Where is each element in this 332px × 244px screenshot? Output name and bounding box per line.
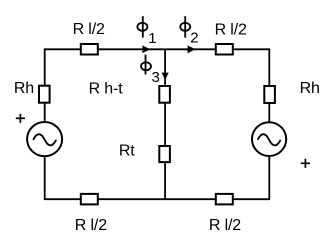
svg-text:2: 2 (190, 29, 198, 46)
svg-text:R l/2: R l/2 (75, 217, 107, 234)
svg-text:R l/2: R l/2 (209, 217, 241, 234)
svg-text:R l/2: R l/2 (73, 21, 105, 38)
svg-text:R l/2: R l/2 (215, 21, 247, 38)
svg-text:Rt: Rt (119, 143, 135, 160)
svg-text:Rh: Rh (14, 80, 34, 97)
svg-text:1: 1 (148, 30, 156, 47)
svg-text:Rh: Rh (300, 80, 320, 97)
svg-text:3: 3 (152, 69, 160, 86)
svg-text:R h-t: R h-t (89, 80, 124, 97)
